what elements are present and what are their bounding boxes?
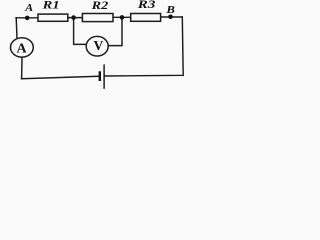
svg-text:B: B [165,4,175,16]
svg-text:V: V [94,39,104,54]
svg-text:A: A [24,3,33,14]
svg-text:R2: R2 [90,0,108,12]
svg-text:R3: R3 [136,0,155,11]
svg-text:R1: R1 [41,0,59,12]
svg-text:A: A [16,42,27,57]
